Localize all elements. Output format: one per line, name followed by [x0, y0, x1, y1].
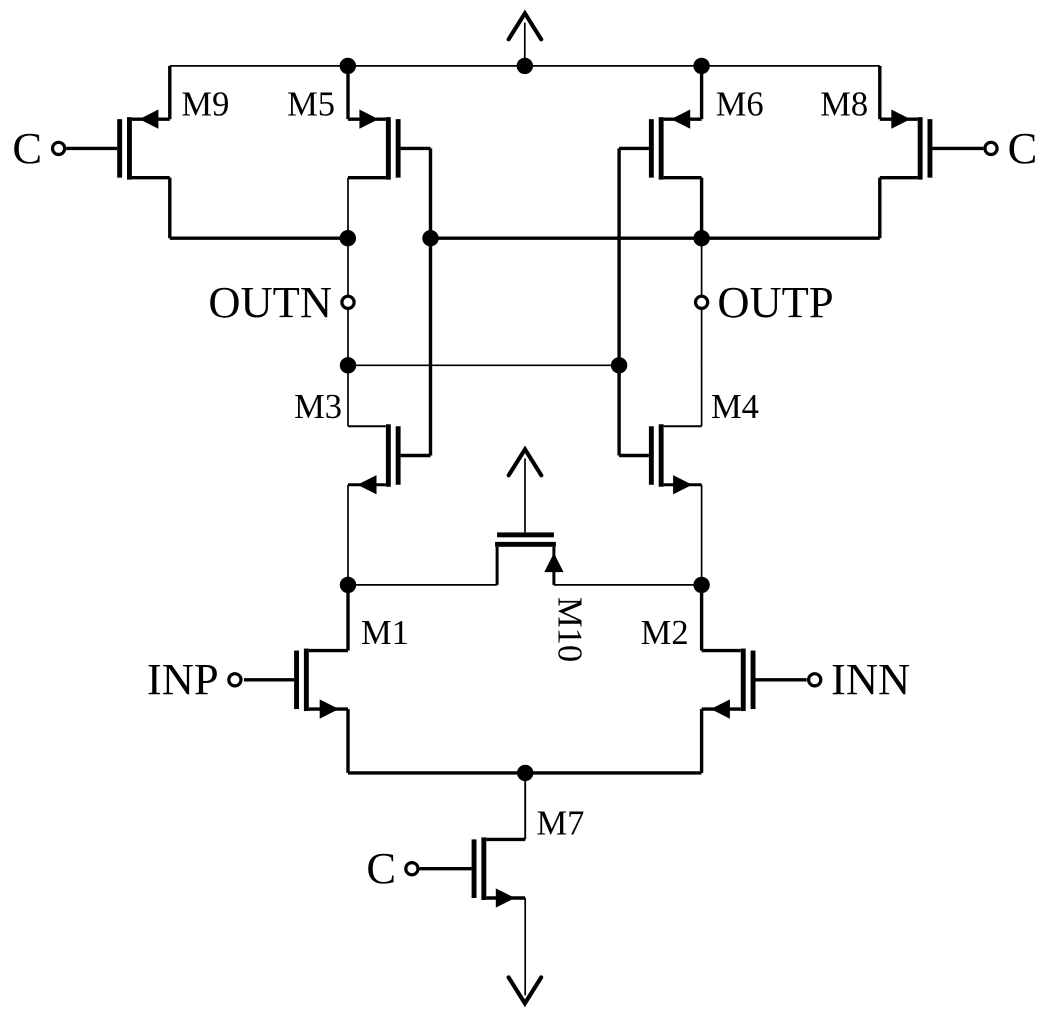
svg-text:M1: M1 — [361, 614, 409, 652]
svg-text:C: C — [1008, 123, 1038, 173]
svg-text:OUTP: OUTP — [717, 277, 833, 327]
svg-text:C: C — [12, 123, 42, 173]
svg-text:M6: M6 — [716, 86, 764, 124]
svg-text:M2: M2 — [641, 614, 689, 652]
svg-text:INP: INP — [147, 654, 219, 704]
svg-text:M3: M3 — [294, 388, 342, 426]
svg-text:M8: M8 — [820, 86, 868, 124]
svg-text:M5: M5 — [287, 86, 335, 124]
svg-text:M4: M4 — [711, 388, 759, 426]
svg-text:C: C — [366, 843, 396, 893]
svg-text:M10: M10 — [551, 597, 589, 662]
svg-text:M9: M9 — [181, 86, 229, 124]
svg-text:M7: M7 — [537, 805, 585, 843]
svg-text:OUTN: OUTN — [208, 277, 332, 327]
svg-text:INN: INN — [831, 654, 910, 704]
